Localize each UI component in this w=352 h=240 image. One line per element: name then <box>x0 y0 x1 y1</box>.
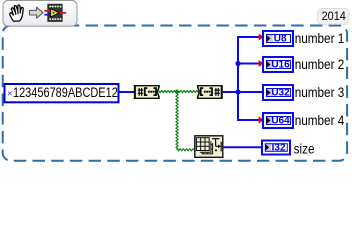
dots <box>148 91 150 93</box>
svg-text:2014: 2014 <box>322 11 347 24</box>
wire: branch to U64 <box>237 119 259 121</box>
svg-text:size: size <box>294 140 315 156</box>
junction dot at U32 branch <box>235 89 240 94</box>
svg-text:U32: U32 <box>271 88 290 99</box>
svg-text:number 4: number 4 <box>295 112 345 128</box>
wire: green horizontal into Array Size <box>177 149 195 151</box>
gray step/next arrow icon <box>30 7 43 18</box>
node U2: Boolean Array To Number <box>197 85 223 99</box>
indicator U16 (number 2) <box>263 57 293 72</box>
svg-text:U8: U8 <box>274 34 287 45</box>
svg-text:123456789ABCDE12: 123456789ABCDE12 <box>13 85 118 100</box>
wire: constant to node1 (blue I64) <box>120 91 136 93</box>
indicator U8 (number 1) <box>263 31 293 46</box>
glyph ] <box>210 88 213 95</box>
wire: green boolean-array node1 to node2 <box>159 90 199 92</box>
numeric constant x123456789ABCDE12 <box>5 84 119 102</box>
indicator U32 (number 3) <box>263 85 293 100</box>
svg-text:U16: U16 <box>271 60 290 71</box>
VI snippet filmstrip badge <box>44 4 66 21</box>
glyph # <box>138 88 144 96</box>
size glyph <box>212 139 221 152</box>
toolbar tab <box>3 1 77 27</box>
main 3x3 grid <box>196 138 209 151</box>
node U1: Number To Boolean Array <box>134 85 160 99</box>
diagram boundary (dashed blue rounded rect) <box>3 26 347 161</box>
wire: green vertical branch down <box>176 93 178 150</box>
indicator U64 (number 4) <box>263 113 293 128</box>
red terminal arrow U64 <box>259 117 265 124</box>
svg-text:number 3: number 3 <box>295 84 345 100</box>
wire: Array Size to I32 <box>223 146 262 148</box>
wire: node2 out to trunk and U32 branch <box>223 91 263 93</box>
green wire junction <box>175 89 180 94</box>
svg-text:number 2: number 2 <box>295 56 345 72</box>
2014 version tab <box>318 9 350 25</box>
svg-text:I32: I32 <box>272 143 286 154</box>
red terminal arrow U16 <box>259 60 265 67</box>
wire: branch to U16 <box>237 63 259 65</box>
glyph [ <box>201 88 204 95</box>
junction dot at U16 branch <box>235 61 240 66</box>
red terminal arrow U8 <box>259 34 265 41</box>
svg-text:×: × <box>7 88 13 99</box>
glyph ] <box>154 88 157 95</box>
glyph # <box>214 88 220 96</box>
dots <box>204 91 206 93</box>
svg-text:U64: U64 <box>271 116 290 127</box>
node U3: Array Size <box>195 136 223 158</box>
stacked array grid echoes <box>200 141 213 154</box>
wire: vertical trunk <box>237 37 239 121</box>
wire: branch to U8 <box>237 36 259 38</box>
glyph [ <box>145 88 148 95</box>
indicator I32 (size) <box>262 141 290 155</box>
operate-tool hand icon <box>10 5 24 21</box>
svg-text:number 1: number 1 <box>295 30 345 46</box>
